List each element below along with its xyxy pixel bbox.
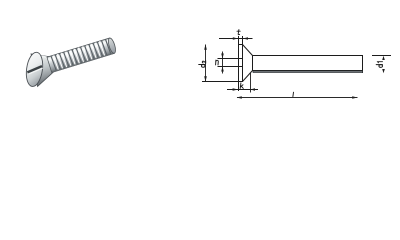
dimension n (slot width) xyxy=(218,52,243,74)
dimension k (head height) xyxy=(227,73,258,93)
shank end line xyxy=(362,55,364,73)
screw photo: slot reflection xyxy=(28,68,43,74)
d1 label xyxy=(376,62,382,68)
n dimension line xyxy=(222,52,224,74)
l label xyxy=(292,92,295,96)
cone top edge xyxy=(243,45,253,56)
head shank junction xyxy=(252,56,254,71)
n top arrow xyxy=(221,54,224,59)
t left arrow xyxy=(233,37,238,39)
k right extension line xyxy=(250,73,252,93)
dimension t (slot depth) xyxy=(219,37,253,39)
slot bottom line with extension xyxy=(242,36,244,82)
screw photo: countersunk head cone xyxy=(28,49,56,86)
d2 bottom extension line xyxy=(202,81,239,83)
screw photo: shank bottom shadow edge xyxy=(52,53,113,72)
l left arrow xyxy=(237,96,242,98)
screw photo: thread ridges dark xyxy=(51,39,111,71)
screw photo: tip end cap xyxy=(107,37,117,54)
technical drawing xyxy=(238,36,363,91)
d2 label xyxy=(199,61,206,68)
d1 top arrow xyxy=(382,56,385,60)
d2 top arrow xyxy=(204,44,207,50)
d1 bottom arrow xyxy=(382,69,385,73)
t dimension line xyxy=(219,38,253,40)
k left arrow xyxy=(233,88,239,91)
shank top line xyxy=(253,55,363,57)
n label xyxy=(216,60,219,65)
d1 top extension line xyxy=(372,55,391,57)
screw photo: thread crest highlights xyxy=(53,41,105,70)
head face line with extensions xyxy=(238,36,240,91)
shank bottom shading xyxy=(253,71,363,73)
n bottom arrow xyxy=(221,67,224,72)
cone bottom edge xyxy=(243,71,253,82)
t right arrow xyxy=(243,37,248,39)
t label xyxy=(237,30,240,35)
dimension d1 (thread diameter) xyxy=(372,56,391,74)
n top extension line xyxy=(218,58,243,60)
screw photo xyxy=(15,27,120,92)
screw photo: slot groove xyxy=(27,66,43,72)
shank bottom line xyxy=(253,70,363,72)
d2 dimension line xyxy=(205,45,207,82)
l dimension line xyxy=(237,97,358,99)
k right arrow xyxy=(250,88,255,91)
n bottom extension line xyxy=(218,66,243,68)
l right arrow xyxy=(352,96,357,98)
head top edge xyxy=(238,44,243,46)
dimension d2 (head diameter) xyxy=(202,44,239,81)
dimension l (total length) xyxy=(237,96,358,98)
head bottom edge xyxy=(238,81,243,83)
d2 bottom arrow xyxy=(204,76,207,82)
k dimension line xyxy=(227,89,258,91)
screw photo: head flat face xyxy=(24,51,44,87)
k label xyxy=(240,83,243,89)
screw photo: threaded shank xyxy=(47,38,114,73)
screw photo: cone top highlight xyxy=(33,51,47,61)
